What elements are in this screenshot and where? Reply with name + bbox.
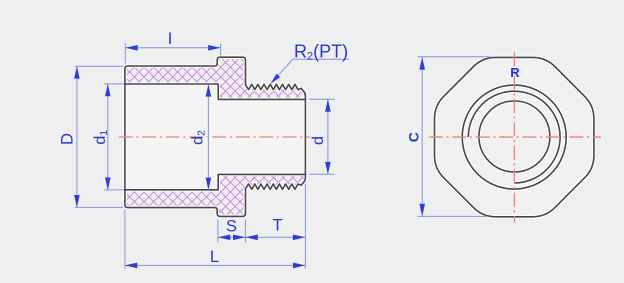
cross-hatched wall section: [125, 57, 306, 216]
dimension S: [218, 220, 246, 243]
dimension T: [245, 184, 305, 269]
svg-text:R: R: [510, 65, 520, 80]
svg-text:L: L: [210, 248, 219, 266]
bore cavity fill: [125, 84, 306, 190]
body outline: [125, 57, 306, 216]
svg-text:C: C: [406, 132, 422, 142]
centerline left view: [119, 136, 310, 138]
centerline right view horizontal: [429, 136, 601, 138]
dimension d: [309, 99, 335, 174]
bore line upper: [125, 84, 306, 99]
dimension L: [125, 210, 306, 269]
fitting body fill: [125, 57, 306, 216]
dimension C: [418, 57, 491, 217]
svg-text:T: T: [272, 217, 282, 235]
white casing for body outlines: [125, 57, 306, 216]
octagonal body front view: [435, 57, 594, 216]
thread crest circle: [462, 85, 566, 189]
bore line lower: [125, 174, 306, 189]
leader R2(PT): [271, 59, 349, 84]
dimension I: [125, 43, 220, 63]
thread root arc: [468, 91, 560, 183]
centerline right view vertical: [513, 52, 515, 223]
bore circle: [479, 101, 550, 172]
svg-text:S: S: [226, 218, 237, 236]
svg-text:R2(PT): R2(PT): [294, 41, 348, 62]
dimension D: [75, 66, 124, 207]
svg-text:d: d: [310, 136, 327, 145]
dimension d2: [207, 84, 209, 190]
svg-text:D: D: [59, 133, 77, 145]
dimension d1: [104, 84, 124, 190]
svg-text:I: I: [168, 30, 173, 48]
